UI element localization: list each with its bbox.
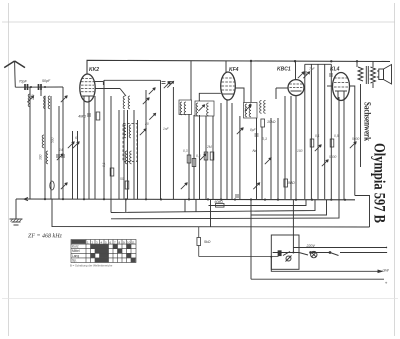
svg-text:B = Schaltung der Wellenbereic: B = Schaltung der Wellenbereiche bbox=[70, 264, 113, 268]
svg-text:+: + bbox=[385, 281, 388, 286]
svg-text:Sp.: Sp. bbox=[72, 258, 77, 262]
svg-text:Kurz: Kurz bbox=[72, 245, 79, 249]
svg-text:Lang: Lang bbox=[72, 254, 79, 258]
svg-text:1nF: 1nF bbox=[163, 127, 170, 131]
svg-text:KF4: KF4 bbox=[229, 67, 239, 73]
svg-text:Ne: Ne bbox=[253, 149, 258, 153]
svg-text:2: 2 bbox=[92, 240, 94, 244]
svg-text:11: 11 bbox=[132, 240, 135, 244]
svg-text:KBC1: KBC1 bbox=[277, 67, 291, 73]
svg-text:4MΩ: 4MΩ bbox=[78, 115, 86, 119]
svg-text:ZF = 468 kHz: ZF = 468 kHz bbox=[28, 233, 63, 240]
svg-text:0,3: 0,3 bbox=[183, 149, 188, 153]
svg-text:10kΩ: 10kΩ bbox=[267, 120, 276, 124]
svg-text:70pF: 70pF bbox=[19, 80, 28, 84]
svg-text:0,1: 0,1 bbox=[262, 137, 267, 141]
svg-text:6: 6 bbox=[110, 240, 112, 244]
svg-text:80: 80 bbox=[145, 122, 149, 126]
svg-text:50pF: 50pF bbox=[42, 79, 51, 83]
svg-text:KK2: KK2 bbox=[89, 67, 99, 73]
svg-text:7: 7 bbox=[114, 240, 116, 244]
svg-text:8: 8 bbox=[119, 240, 121, 244]
svg-text:60kΩ: 60kΩ bbox=[215, 200, 224, 204]
svg-text:50: 50 bbox=[120, 177, 124, 181]
svg-text:0,5: 0,5 bbox=[196, 154, 201, 158]
svg-text:4: 4 bbox=[101, 240, 103, 244]
svg-text:6: 6 bbox=[75, 136, 77, 140]
svg-text:GW: GW bbox=[383, 269, 390, 273]
svg-text:Sachsenwerk: Sachsenwerk bbox=[363, 102, 373, 141]
svg-text:2M: 2M bbox=[206, 145, 212, 149]
svg-text:1: 1 bbox=[87, 240, 89, 244]
svg-text:0,5: 0,5 bbox=[334, 134, 339, 138]
svg-text:3: 3 bbox=[96, 240, 98, 244]
svg-text:100: 100 bbox=[31, 94, 35, 100]
svg-text:10: 10 bbox=[127, 240, 131, 244]
svg-text:Olympia 597 B: Olympia 597 B bbox=[371, 143, 388, 223]
svg-text:Mittel: Mittel bbox=[72, 249, 80, 253]
svg-text:5: 5 bbox=[105, 240, 107, 244]
svg-text:0,1: 0,1 bbox=[102, 162, 106, 167]
svg-text:8pF: 8pF bbox=[250, 128, 257, 132]
svg-text:500: 500 bbox=[51, 137, 55, 143]
svg-text:-: - bbox=[386, 250, 388, 255]
svg-text:9: 9 bbox=[123, 240, 125, 244]
svg-text:5000: 5000 bbox=[329, 155, 337, 159]
svg-text:0,1: 0,1 bbox=[315, 134, 320, 138]
svg-text:5000: 5000 bbox=[352, 137, 360, 141]
svg-text:7pF: 7pF bbox=[309, 67, 316, 71]
svg-text:14: 14 bbox=[59, 148, 63, 152]
svg-text:100: 100 bbox=[297, 149, 303, 153]
svg-text:300: 300 bbox=[39, 154, 43, 160]
svg-text:KL4: KL4 bbox=[330, 67, 340, 73]
svg-text:1MΩ: 1MΩ bbox=[287, 181, 295, 185]
svg-text:220V: 220V bbox=[306, 244, 316, 248]
svg-text:5kΩ: 5kΩ bbox=[204, 240, 211, 244]
